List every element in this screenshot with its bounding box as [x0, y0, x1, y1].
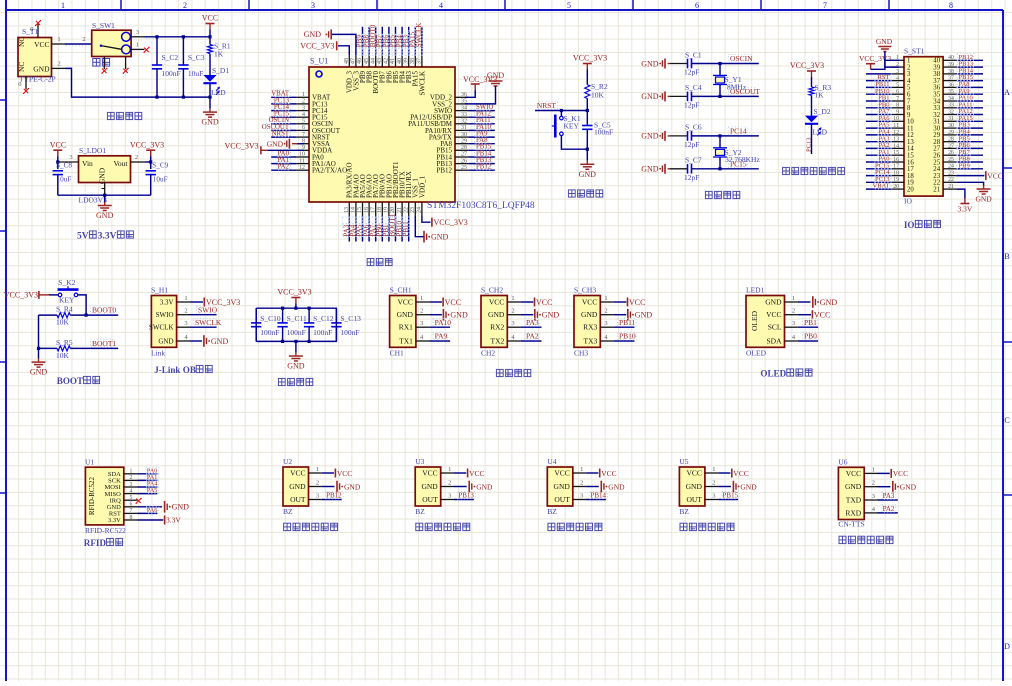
svg-text:5: 5	[130, 495, 133, 501]
svg-text:GND: GND	[96, 211, 114, 220]
svg-text:GND: GND	[211, 337, 229, 346]
svg-text:PB13: PB13	[458, 492, 474, 500]
svg-text:PA2: PA2	[526, 332, 539, 341]
svg-text:S_C13: S_C13	[340, 314, 361, 323]
svg-text:GND: GND	[172, 503, 190, 512]
svg-text:1K: 1K	[214, 50, 224, 59]
svg-text:A: A	[1004, 88, 1010, 97]
svg-text:0: 0	[18, 81, 21, 88]
svg-text:1: 1	[61, 1, 65, 10]
svg-text:11: 11	[299, 158, 305, 164]
svg-text:1: 1	[57, 36, 60, 43]
svg-text:25: 25	[461, 165, 467, 171]
svg-text:OLED: OLED	[750, 310, 759, 331]
svg-text:PB12: PB12	[476, 164, 492, 171]
svg-text:19: 19	[384, 207, 390, 213]
svg-text:6: 6	[130, 502, 133, 508]
svg-text:GND: GND	[287, 362, 305, 371]
svg-text:12pF: 12pF	[684, 140, 699, 149]
svg-text:S_D1: S_D1	[212, 66, 229, 75]
svg-text:100nF: 100nF	[287, 328, 306, 337]
svg-text:12pF: 12pF	[684, 68, 699, 77]
svg-text:20: 20	[907, 186, 914, 193]
svg-text:21: 21	[948, 184, 954, 190]
svg-text:GND: GND	[641, 165, 659, 174]
svg-text:42: 42	[384, 58, 390, 64]
svg-text:28: 28	[948, 137, 954, 143]
svg-text:GND: GND	[267, 140, 284, 149]
svg-text:100nF: 100nF	[594, 128, 613, 137]
svg-text:VCC: VCC	[893, 469, 908, 478]
svg-text:3.3V: 3.3V	[958, 205, 973, 214]
svg-text:PA6: PA6	[147, 507, 157, 514]
svg-text:GND: GND	[608, 482, 625, 491]
svg-text:23: 23	[410, 207, 416, 213]
svg-text:B: B	[1004, 252, 1009, 261]
svg-text:TXD: TXD	[846, 496, 862, 505]
svg-text:10K: 10K	[591, 91, 605, 100]
svg-text:10: 10	[893, 116, 899, 122]
svg-text:27: 27	[948, 143, 954, 149]
svg-text:PB15: PB15	[723, 492, 739, 500]
svg-text:1: 1	[136, 41, 139, 48]
svg-text:GND: GND	[304, 30, 322, 39]
svg-text:STM32F103C8T6_LQFP48: STM32F103C8T6_LQFP48	[427, 201, 535, 211]
svg-text:SWIO: SWIO	[198, 305, 218, 314]
svg-text:32: 32	[461, 119, 467, 125]
svg-text:1: 1	[792, 295, 795, 302]
svg-text:S_R4: S_R4	[56, 305, 73, 314]
svg-text:RXD: RXD	[845, 508, 861, 517]
svg-text:3: 3	[872, 493, 875, 500]
svg-text:12pF: 12pF	[684, 173, 699, 182]
svg-text:S_D2: S_D2	[814, 107, 831, 116]
svg-text:14: 14	[351, 207, 357, 213]
svg-text:GND: GND	[900, 483, 917, 492]
svg-text:48: 48	[344, 58, 350, 64]
svg-text:PB14: PB14	[590, 492, 606, 500]
svg-text:40: 40	[948, 55, 954, 61]
svg-text:2: 2	[580, 480, 583, 487]
svg-text:26: 26	[461, 158, 467, 164]
svg-text:VCC: VCC	[846, 469, 861, 478]
svg-text:CH1: CH1	[390, 349, 404, 358]
svg-text:2: 2	[57, 60, 60, 67]
svg-text:VCC: VCC	[337, 469, 352, 478]
svg-text:33: 33	[948, 103, 954, 109]
svg-text:3: 3	[311, 1, 315, 10]
svg-text:VCC_3V3: VCC_3V3	[573, 54, 607, 63]
svg-text:26: 26	[948, 150, 954, 156]
svg-text:18: 18	[893, 171, 899, 177]
svg-text:3: 3	[448, 493, 451, 500]
svg-text:Vin: Vin	[82, 159, 93, 168]
svg-text:21: 21	[933, 186, 940, 193]
svg-text:TX1: TX1	[399, 337, 413, 346]
svg-text:OLED: OLED	[746, 349, 767, 358]
svg-text:VCC: VCC	[554, 469, 569, 478]
svg-text:VCC_3V3: VCC_3V3	[130, 141, 164, 150]
svg-text:2: 2	[316, 480, 319, 487]
svg-text:2: 2	[135, 154, 138, 161]
svg-text:OUT: OUT	[554, 495, 570, 504]
svg-text:16: 16	[364, 207, 370, 213]
svg-text:10uF: 10uF	[57, 176, 72, 184]
svg-text:PA5: PA5	[147, 487, 157, 494]
svg-text:5: 5	[302, 119, 305, 125]
svg-text:6: 6	[695, 1, 699, 10]
svg-text:OLED: OLED	[760, 369, 786, 379]
svg-text:14: 14	[893, 143, 899, 149]
svg-text:0: 0	[30, 26, 33, 33]
svg-text:GND: GND	[397, 310, 414, 319]
svg-text:GND: GND	[542, 311, 560, 320]
svg-text:VCC: VCC	[686, 469, 701, 478]
svg-text:VCC: VCC	[601, 469, 616, 478]
svg-text:3.3V: 3.3V	[160, 298, 174, 306]
svg-text:15: 15	[357, 207, 363, 213]
svg-text:VDD_1: VDD_1	[418, 175, 426, 198]
svg-text:1: 1	[580, 466, 583, 473]
svg-text:34: 34	[461, 105, 467, 111]
svg-text:VCC: VCC	[34, 40, 49, 49]
svg-text:CH3: CH3	[574, 349, 588, 358]
svg-text:GND: GND	[421, 482, 438, 491]
svg-text:1K: 1K	[815, 91, 825, 100]
svg-text:RX2: RX2	[490, 323, 504, 332]
svg-text:Vout: Vout	[113, 159, 128, 168]
svg-text:PA3: PA3	[526, 318, 539, 327]
svg-text:CN-TTS: CN-TTS	[838, 520, 864, 529]
svg-text:PB0: PB0	[804, 332, 817, 341]
svg-text:S_C7: S_C7	[685, 156, 702, 165]
svg-text:GND: GND	[488, 310, 505, 319]
svg-text:S_C9: S_C9	[152, 162, 168, 170]
svg-text:SWCLK: SWCLK	[418, 71, 426, 96]
svg-text:BZ: BZ	[679, 507, 689, 516]
svg-text:7: 7	[823, 1, 827, 10]
svg-text:BOOT1: BOOT1	[92, 339, 116, 348]
svg-text:5V: 5V	[77, 232, 89, 242]
svg-text:VCC: VCC	[397, 298, 412, 307]
svg-text:PC14: PC14	[730, 126, 747, 135]
svg-text:NC: NC	[17, 37, 26, 47]
svg-text:45: 45	[364, 58, 370, 64]
svg-text:2: 2	[183, 1, 187, 10]
svg-text:3: 3	[896, 69, 899, 75]
svg-text:4: 4	[302, 112, 305, 118]
svg-text:12pF: 12pF	[684, 100, 699, 109]
svg-text:U2: U2	[283, 457, 292, 466]
svg-text:PB12: PB12	[436, 167, 452, 175]
svg-text:S_C1: S_C1	[685, 50, 702, 59]
svg-text:RFID: RFID	[84, 538, 107, 548]
svg-text:PA3: PA3	[883, 492, 895, 500]
svg-text:17: 17	[893, 164, 899, 170]
svg-text:SWCLK: SWCLK	[195, 318, 222, 327]
svg-text:U3: U3	[415, 457, 424, 466]
svg-text:32: 32	[948, 109, 954, 115]
svg-text:RX1: RX1	[399, 323, 413, 332]
svg-text:2: 2	[792, 308, 795, 315]
svg-text:3: 3	[69, 154, 72, 161]
svg-text:S_CH3: S_CH3	[574, 286, 596, 295]
svg-text:2: 2	[872, 480, 875, 487]
svg-text:NC: NC	[17, 62, 26, 72]
svg-text:PA2/TX/AO: PA2/TX/AO	[312, 167, 347, 175]
svg-text:30: 30	[461, 132, 467, 138]
svg-text:4: 4	[896, 76, 899, 82]
svg-text:10: 10	[299, 152, 305, 158]
svg-text:9: 9	[896, 109, 899, 115]
svg-text:VCC: VCC	[536, 298, 552, 307]
svg-text:U4: U4	[547, 457, 556, 466]
svg-text:GND: GND	[876, 37, 893, 46]
svg-text:8: 8	[949, 1, 953, 10]
svg-text:1: 1	[872, 466, 875, 473]
svg-text:PB1: PB1	[804, 318, 817, 327]
svg-text:OSCIN: OSCIN	[730, 54, 753, 63]
svg-text:S_H1: S_H1	[151, 286, 168, 295]
svg-text:27: 27	[461, 152, 467, 158]
svg-text:GND: GND	[641, 59, 659, 68]
svg-text:20: 20	[893, 184, 899, 190]
svg-text:KEY: KEY	[564, 122, 580, 131]
svg-text:1: 1	[316, 466, 319, 473]
svg-text:GND: GND	[635, 311, 653, 320]
svg-text:TX2: TX2	[491, 337, 505, 346]
svg-text:C: C	[1004, 416, 1009, 425]
svg-text:29: 29	[461, 138, 467, 144]
svg-text:PB9: PB9	[959, 162, 970, 169]
svg-text:5: 5	[896, 82, 899, 88]
svg-text:2: 2	[712, 480, 715, 487]
svg-text:44: 44	[370, 58, 376, 64]
svg-text:GND: GND	[450, 311, 468, 320]
svg-text:LED: LED	[211, 88, 226, 97]
svg-text:PA2: PA2	[883, 505, 895, 513]
svg-text:100nF: 100nF	[313, 328, 332, 337]
svg-text:VCC: VCC	[290, 469, 305, 478]
svg-text:S_C3: S_C3	[188, 53, 205, 62]
svg-text:S_K2: S_K2	[58, 278, 75, 287]
svg-text:GND: GND	[765, 298, 782, 307]
svg-text:3: 3	[604, 320, 607, 327]
svg-text:GND: GND	[33, 65, 50, 74]
svg-text:VCC_3V3: VCC_3V3	[790, 61, 824, 70]
svg-text:8: 8	[896, 103, 899, 109]
svg-text:VCC_3V3: VCC_3V3	[4, 290, 38, 299]
svg-text:GND: GND	[845, 482, 862, 491]
svg-text:39: 39	[948, 62, 954, 68]
svg-text:17: 17	[370, 207, 376, 213]
svg-text:6: 6	[896, 89, 899, 95]
svg-text:11: 11	[893, 123, 899, 129]
svg-text:S_R5: S_R5	[56, 338, 73, 347]
svg-text:CH2: CH2	[481, 349, 495, 358]
svg-text:GND: GND	[641, 92, 659, 101]
svg-text:J-Link OB: J-Link OB	[154, 365, 196, 375]
svg-text:VCC: VCC	[50, 141, 66, 150]
svg-text:3.3V: 3.3V	[98, 232, 117, 242]
svg-text:VCC: VCC	[422, 469, 437, 478]
svg-text:10uF: 10uF	[188, 69, 203, 78]
svg-text:BZ: BZ	[415, 507, 425, 516]
svg-text:U5: U5	[679, 457, 688, 466]
svg-text:RFID-RC522: RFID-RC522	[85, 526, 126, 535]
svg-text:VCC: VCC	[733, 469, 748, 478]
svg-text:GND: GND	[686, 482, 703, 491]
svg-text:VCC_3V3: VCC_3V3	[224, 141, 258, 150]
svg-text:16: 16	[893, 157, 899, 163]
svg-text:GND: GND	[98, 167, 107, 184]
svg-text:1: 1	[302, 92, 305, 98]
svg-text:10K: 10K	[56, 318, 70, 327]
svg-text:2: 2	[184, 308, 187, 315]
svg-text:3: 3	[136, 29, 139, 36]
svg-text:PA2: PA2	[278, 164, 290, 171]
svg-text:VCC_3V3: VCC_3V3	[434, 218, 468, 227]
svg-text:40: 40	[397, 58, 403, 64]
svg-text:3: 3	[792, 320, 795, 327]
svg-text:37: 37	[417, 58, 423, 64]
svg-text:19: 19	[893, 177, 899, 183]
svg-text:D: D	[1004, 642, 1010, 651]
svg-text:13: 13	[344, 207, 350, 213]
svg-text:1: 1	[511, 295, 514, 302]
svg-text:2: 2	[511, 308, 514, 315]
svg-text:S_ST1: S_ST1	[904, 47, 925, 56]
svg-text:3: 3	[302, 105, 305, 111]
svg-text:BZ: BZ	[547, 507, 557, 516]
svg-text:LED: LED	[813, 128, 828, 137]
svg-text:34: 34	[948, 96, 954, 102]
svg-text:1: 1	[448, 466, 451, 473]
svg-text:S_C6: S_C6	[685, 123, 702, 132]
svg-text:S_SW1: S_SW1	[92, 21, 115, 30]
svg-text:U1: U1	[85, 458, 94, 467]
svg-text:GND: GND	[158, 337, 173, 345]
svg-text:PB12: PB12	[326, 492, 342, 500]
svg-text:13: 13	[893, 137, 899, 143]
svg-text:OUT: OUT	[290, 495, 306, 504]
svg-text:OUT: OUT	[422, 495, 438, 504]
svg-text:31: 31	[461, 125, 467, 131]
svg-text:15: 15	[893, 150, 899, 156]
svg-text:GND: GND	[476, 482, 493, 491]
svg-text:2: 2	[448, 480, 451, 487]
svg-text:3: 3	[184, 320, 187, 327]
svg-text:2: 2	[302, 99, 305, 105]
svg-text:BZ: BZ	[283, 507, 293, 516]
svg-text:VCC: VCC	[202, 14, 218, 23]
svg-text:GND: GND	[30, 368, 48, 377]
svg-text:100nF: 100nF	[162, 69, 181, 78]
svg-text:3: 3	[316, 493, 319, 500]
svg-text:47: 47	[351, 58, 357, 64]
svg-text:U6: U6	[838, 458, 847, 467]
svg-text:TYPE-C-2P: TYPE-C-2P	[19, 75, 56, 84]
svg-text:SDA: SDA	[766, 337, 782, 346]
svg-text:RFID-RC522: RFID-RC522	[88, 476, 96, 515]
svg-text:28: 28	[461, 145, 467, 151]
svg-text:2: 2	[604, 308, 607, 315]
svg-text:3.3V: 3.3V	[108, 517, 121, 524]
svg-text:31: 31	[948, 116, 954, 122]
svg-text:BOOT0: BOOT0	[92, 306, 116, 315]
svg-text:29: 29	[948, 130, 954, 136]
svg-text:VCC: VCC	[629, 298, 645, 307]
svg-text:3: 3	[420, 320, 423, 327]
svg-text:GND: GND	[201, 118, 219, 127]
svg-text:18: 18	[377, 207, 383, 213]
svg-text:OUT: OUT	[686, 495, 702, 504]
svg-text:46: 46	[357, 58, 363, 64]
svg-text:24: 24	[417, 207, 423, 213]
svg-text:LED1: LED1	[746, 286, 765, 295]
svg-text:Link: Link	[151, 349, 165, 358]
svg-text:GND: GND	[289, 482, 306, 491]
svg-text:33: 33	[461, 112, 467, 118]
svg-text:22: 22	[948, 177, 954, 183]
svg-text:GND: GND	[581, 310, 598, 319]
svg-text:36: 36	[948, 82, 954, 88]
svg-text:SWCLK: SWCLK	[149, 324, 174, 332]
svg-text:21: 21	[397, 207, 403, 213]
svg-text:PC13: PC13	[806, 138, 813, 152]
svg-text:S_CH2: S_CH2	[481, 286, 503, 295]
svg-text:GND: GND	[975, 195, 992, 204]
svg-text:BOOT: BOOT	[57, 376, 83, 386]
svg-text:3: 3	[580, 493, 583, 500]
svg-text:VCC_3V3: VCC_3V3	[300, 42, 334, 51]
svg-text:3: 3	[130, 482, 133, 488]
svg-text:PB10: PB10	[619, 332, 636, 341]
svg-text:GND: GND	[431, 233, 449, 242]
svg-text:IO: IO	[904, 197, 912, 206]
svg-text:1: 1	[712, 466, 715, 473]
svg-text:GND: GND	[740, 482, 757, 491]
svg-text:2: 2	[130, 475, 133, 481]
svg-text:10K: 10K	[56, 351, 70, 360]
svg-text:22: 22	[403, 207, 409, 213]
svg-text:7: 7	[130, 508, 133, 514]
svg-text:S_C12: S_C12	[313, 314, 334, 323]
svg-text:VBAT: VBAT	[873, 183, 890, 190]
svg-text:8MHz: 8MHz	[727, 83, 747, 92]
svg-text:SWIO: SWIO	[156, 311, 174, 319]
svg-text:38: 38	[948, 69, 954, 75]
svg-text:3.3V: 3.3V	[166, 516, 181, 525]
svg-text:VCC_3V3: VCC_3V3	[277, 288, 311, 297]
svg-text:GND: GND	[554, 482, 571, 491]
svg-text:3: 3	[712, 493, 715, 500]
svg-text:2: 2	[420, 308, 423, 315]
svg-text:6: 6	[302, 125, 305, 131]
svg-text:VCC_3V3: VCC_3V3	[859, 54, 891, 63]
svg-text:7: 7	[302, 132, 305, 138]
svg-text:1: 1	[184, 295, 187, 302]
svg-text:39: 39	[403, 58, 409, 64]
svg-text:7: 7	[896, 96, 899, 102]
svg-text:25: 25	[948, 157, 954, 163]
svg-text:2: 2	[82, 36, 85, 43]
svg-text:20: 20	[390, 207, 396, 213]
svg-text:GND: GND	[579, 170, 597, 179]
svg-text:23: 23	[948, 171, 954, 177]
svg-text:VCC: VCC	[766, 310, 781, 319]
svg-text:KEY: KEY	[59, 296, 75, 305]
